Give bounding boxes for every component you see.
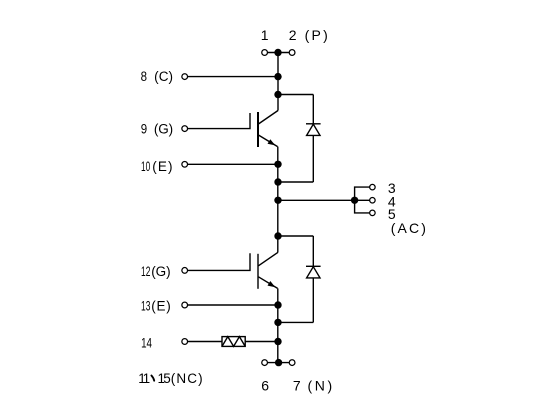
svg-text:12: 12 [141, 264, 150, 279]
svg-text:9: 9 [141, 122, 147, 137]
wire [245, 341, 278, 343]
junction [274, 232, 281, 239]
wire [187, 341, 222, 343]
diode D2 (lower freewheel) [306, 236, 321, 322]
junction [274, 178, 281, 185]
wire [187, 113, 250, 129]
transistor Q1 (upper IGBT) [258, 111, 278, 148]
svg-text:(P): (P) [305, 27, 330, 43]
wire [278, 181, 313, 183]
svg-text:8: 8 [141, 69, 147, 84]
wire [265, 362, 293, 364]
svg-text:(C): (C) [154, 69, 173, 84]
terminal 1 [262, 50, 268, 56]
svg-text:(G): (G) [151, 264, 170, 279]
wire [278, 94, 313, 96]
pin label 8(C) [141, 69, 174, 84]
wire [277, 53, 279, 111]
svg-text:1: 1 [261, 27, 269, 43]
wire [355, 187, 370, 213]
terminal 12 [182, 268, 188, 274]
wire [278, 235, 313, 237]
terminal 10 [182, 161, 188, 167]
wire [265, 52, 293, 54]
wire [277, 288, 279, 362]
junction node P [274, 49, 281, 56]
terminal 3 [370, 184, 376, 190]
junction [274, 301, 281, 308]
svg-text:(G): (G) [154, 122, 173, 137]
svg-text:(NC): (NC) [171, 371, 204, 386]
svg-text:2: 2 [289, 27, 297, 43]
wire [277, 147, 279, 253]
pin label 10(E) [141, 159, 174, 174]
junction [274, 338, 281, 345]
svg-text:(E): (E) [152, 159, 173, 174]
terminal 8 [182, 74, 188, 80]
wire [278, 321, 313, 323]
svg-text:6: 6 [261, 378, 269, 394]
terminal 13 [182, 302, 188, 308]
terminal 7 [289, 360, 295, 366]
diode D1 (upper freewheel) [306, 95, 321, 183]
terminal 9 [182, 126, 188, 132]
svg-text:13: 13 [141, 298, 150, 313]
pin label 11, 15(NC) [138, 371, 203, 386]
svg-text:7: 7 [293, 378, 301, 394]
svg-text:(N): (N) [308, 378, 335, 394]
svg-text:10: 10 [141, 159, 150, 174]
wire [355, 199, 370, 201]
terminal 6 [262, 360, 268, 366]
wire [187, 304, 278, 306]
junction node N [275, 359, 282, 366]
terminal 14 [182, 339, 188, 345]
resistor R1 (thermistor) [222, 337, 245, 347]
junction [274, 161, 281, 168]
svg-text:(AC): (AC) [391, 220, 428, 236]
junction [274, 73, 281, 80]
pin label 13(E) [141, 298, 171, 313]
terminal 2 [289, 50, 295, 56]
wire [187, 253, 250, 270]
pin label 12(G) [141, 264, 171, 279]
wire [187, 163, 278, 165]
junction [274, 319, 281, 326]
junction [274, 197, 281, 204]
junction [274, 91, 281, 98]
wire [187, 76, 278, 78]
junction [351, 197, 358, 204]
svg-text:1: 1 [143, 371, 151, 386]
terminal 5 [370, 210, 376, 216]
transistor Q2 (lower IGBT) [258, 252, 278, 288]
svg-text:(E): (E) [151, 298, 171, 313]
svg-text:5: 5 [163, 371, 171, 386]
wire [278, 199, 355, 201]
svg-text:14: 14 [141, 336, 152, 351]
terminal 4 [370, 198, 376, 204]
pin label 9(G) [141, 122, 173, 137]
